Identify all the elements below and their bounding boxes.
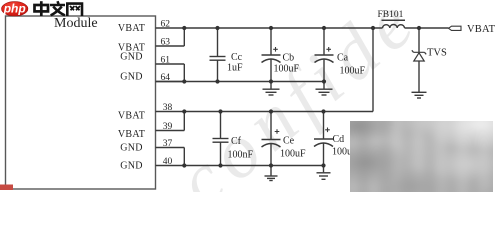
mosaic censored block — [350, 121, 493, 192]
node Cf top — [218, 109, 222, 113]
svg-text:php: php — [3, 1, 26, 15]
svg-text:37: 37 — [163, 139, 173, 149]
svg-text:GND: GND — [120, 143, 143, 154]
svg-text:GND: GND — [120, 161, 143, 172]
node Cf bottom — [218, 163, 222, 167]
svg-text:100uF: 100uF — [280, 149, 306, 160]
svg-text:Ca: Ca — [337, 53, 349, 64]
wire pin64 stub — [156, 81, 185, 83]
node Ce bottom — [269, 163, 273, 167]
wire GND rail lower — [184, 165, 323, 167]
svg-text:100nF: 100nF — [228, 150, 254, 161]
capacitor C c — [210, 28, 226, 82]
svg-text:FB101: FB101 — [378, 10, 404, 20]
svg-text:TVS: TVS — [427, 48, 447, 59]
svg-text:40: 40 — [163, 157, 173, 167]
ground under Cb — [263, 82, 280, 96]
wire VBAT rail lower — [184, 111, 373, 113]
wire tie 62-63 — [183, 28, 185, 46]
logo php badge — [2, 1, 28, 16]
svg-text:Cc: Cc — [231, 52, 243, 63]
svg-text:Cf: Cf — [231, 136, 242, 147]
wire tie 37-40 — [183, 148, 185, 166]
svg-text:61: 61 — [161, 55, 171, 65]
node Ca bottom — [322, 79, 326, 83]
node Cd top — [321, 109, 325, 113]
node pin62/63 tie — [182, 26, 186, 30]
capacitor Cf — [213, 112, 229, 166]
svg-text:Ce: Ce — [283, 136, 295, 147]
wire GND rail top — [156, 81, 325, 83]
port tag VBAT — [449, 26, 462, 30]
wire pin63 stub — [156, 45, 185, 47]
ground under Ca — [316, 82, 333, 96]
svg-text:VBAT: VBAT — [118, 129, 145, 140]
node pin37/40 tie — [182, 163, 186, 167]
wire pin40 stub — [156, 165, 185, 167]
wire tie 61-64 — [183, 64, 185, 82]
svg-text:GND: GND — [120, 72, 143, 83]
capacitor Ce — [262, 112, 281, 166]
wire tie 38-39 — [183, 112, 185, 131]
logo red bar bottom-left — [0, 185, 13, 191]
svg-text:VBAT: VBAT — [118, 111, 145, 122]
svg-text:VBAT: VBAT — [467, 24, 496, 35]
wire pin38 stub — [156, 111, 185, 113]
wire pin39 stub — [156, 130, 185, 132]
svg-text:Module: Module — [54, 16, 98, 31]
svg-text:63: 63 — [161, 37, 171, 47]
svg-text:39: 39 — [163, 122, 173, 132]
logo char 中 — [35, 1, 49, 16]
node Ca top — [322, 26, 326, 30]
svg-text:38: 38 — [163, 103, 173, 113]
logo char 文 — [50, 1, 65, 15]
inductor FB101 — [382, 20, 406, 28]
svg-text:Cb: Cb — [283, 53, 295, 64]
diode TVS — [412, 28, 426, 92]
svg-text:1uF: 1uF — [227, 63, 243, 74]
module box — [6, 16, 156, 189]
ground under Ce — [265, 166, 278, 181]
wire pin37 stub — [156, 147, 185, 149]
node pin61/64 tie — [182, 79, 186, 83]
ground under TVS — [412, 92, 427, 98]
capacitor Ca — [315, 28, 334, 82]
node Cb top — [269, 26, 273, 30]
logo char 网 — [67, 4, 82, 16]
node Ce top — [269, 109, 273, 113]
node rail tie top — [371, 26, 375, 30]
capacitor Cd — [314, 112, 333, 166]
svg-text:100uF: 100uF — [274, 64, 300, 75]
svg-text:GND: GND — [120, 51, 143, 62]
node Cc bottom — [215, 79, 219, 83]
node Cc top — [215, 26, 219, 30]
wire pin61 stub — [156, 63, 185, 65]
svg-text:64: 64 — [161, 73, 171, 83]
wire pin62 stub — [156, 27, 185, 29]
node pin38/39 tie — [182, 109, 186, 113]
node Cd bottom — [321, 163, 325, 167]
svg-text:100uF: 100uF — [340, 66, 366, 77]
node Cb bottom — [269, 79, 273, 83]
wire vertical tie rails — [372, 28, 374, 112]
svg-text:Cd: Cd — [333, 134, 345, 145]
capacitor Cb — [262, 28, 281, 82]
node TVS tap — [417, 26, 421, 30]
svg-text:62: 62 — [161, 19, 171, 29]
wire VBAT rail top — [184, 27, 382, 29]
svg-text:VBAT: VBAT — [118, 23, 145, 34]
ground under Cd — [317, 166, 331, 180]
